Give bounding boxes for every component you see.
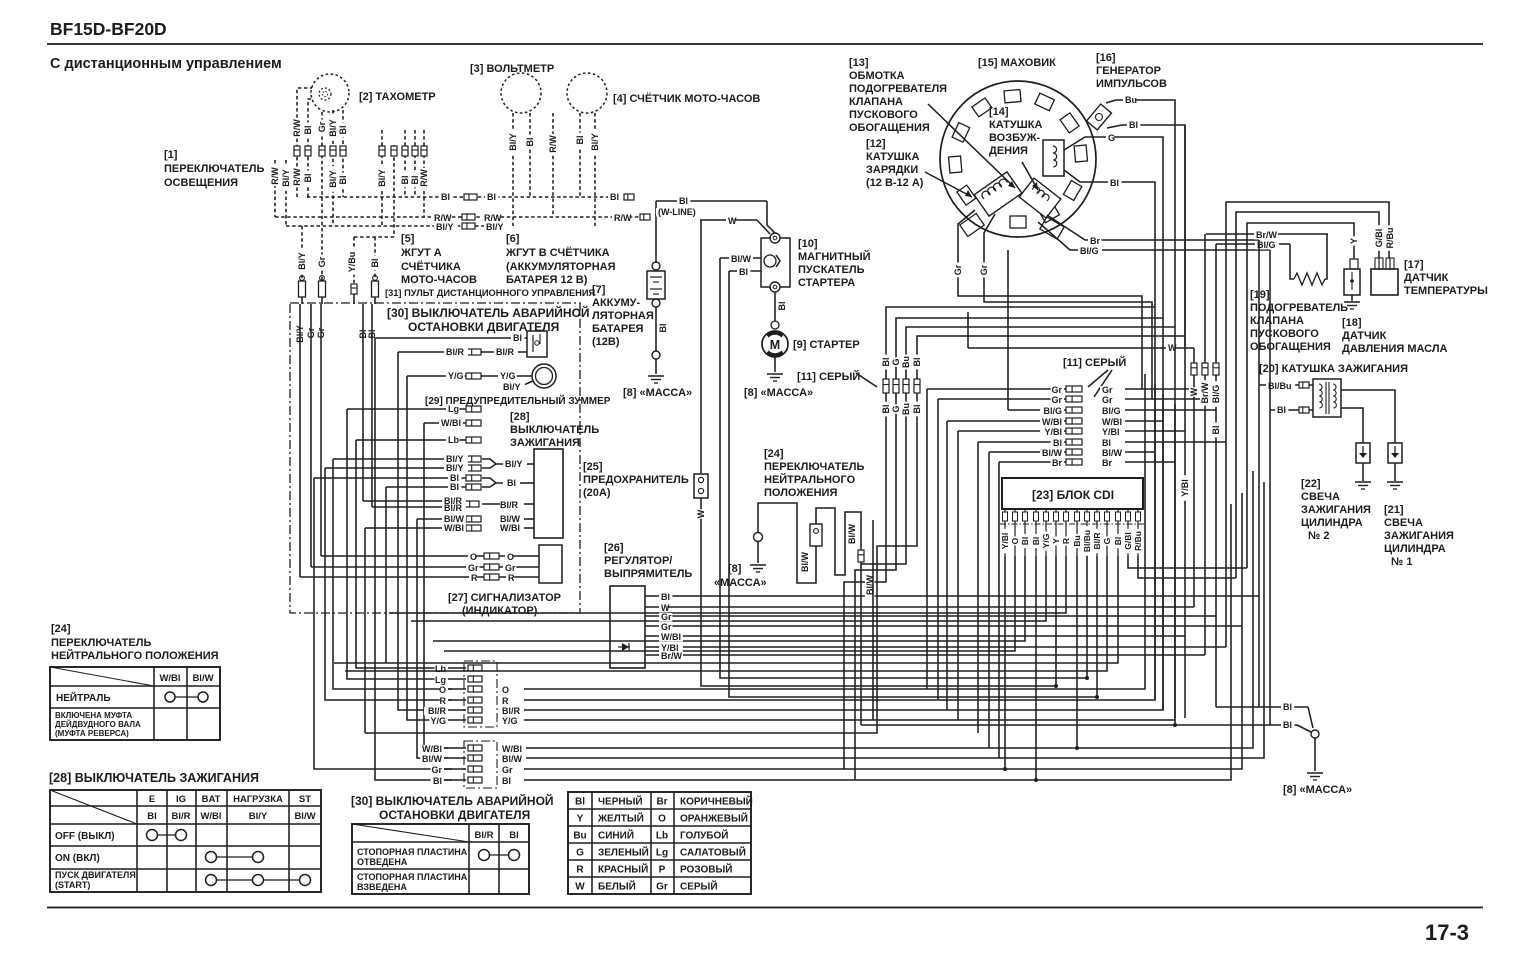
svg-text:W/Bl: W/Bl: [1042, 417, 1062, 427]
svg-text:Bl/W: Bl/W: [1042, 448, 1063, 458]
svg-text:[8] «МАССА»: [8] «МАССА»: [623, 387, 692, 399]
svg-text:(20А): (20А): [583, 487, 611, 499]
svg-text:Bl: Bl: [658, 324, 668, 333]
svg-text:Bl: Bl: [610, 192, 619, 202]
svg-text:G: G: [576, 848, 584, 859]
svg-text:СИНИЙ: СИНИЙ: [598, 829, 634, 842]
svg-text:G: G: [1102, 537, 1112, 544]
svg-text:R/W: R/W: [292, 168, 302, 186]
svg-text:Gr: Gr: [317, 121, 327, 132]
svg-text:ВКЛЮЧЕНА МУФТА: ВКЛЮЧЕНА МУФТА: [55, 711, 132, 720]
svg-text:(W-LINE): (W-LINE): [658, 207, 696, 217]
svg-text:ДАВЛЕНИЯ МАСЛА: ДАВЛЕНИЯ МАСЛА: [1342, 343, 1448, 355]
svg-text:Bl/Y: Bl/Y: [377, 169, 387, 187]
svg-text:[4] СЧЁТЧИК МОТО-ЧАСОВ: [4] СЧЁТЧИК МОТО-ЧАСОВ: [613, 92, 760, 105]
svg-text:Bl: Bl: [338, 126, 348, 135]
svg-text:OFF (ВЫКЛ): OFF (ВЫКЛ): [55, 831, 115, 842]
svg-text:[16]: [16]: [1096, 52, 1116, 64]
svg-text:ТЕМПЕРАТУРЫ: ТЕМПЕРАТУРЫ: [1404, 285, 1488, 297]
svg-text:Bl/R: Bl/R: [428, 706, 447, 716]
svg-text:Y/G: Y/G: [448, 371, 464, 381]
svg-text:Bl: Bl: [912, 405, 922, 414]
svg-text:(12 В-12 А): (12 В-12 А): [866, 177, 924, 189]
svg-text:Bl/G: Bl/G: [1102, 406, 1121, 416]
svg-text:Bl: Bl: [575, 136, 585, 145]
svg-text:Bl: Bl: [1283, 702, 1292, 712]
svg-text:W: W: [1168, 343, 1177, 353]
svg-text:Bl: Bl: [1020, 537, 1030, 546]
svg-text:Bl: Bl: [502, 776, 511, 786]
svg-text:[14]: [14]: [989, 106, 1009, 118]
svg-text:Bl: Bl: [433, 776, 442, 786]
svg-text:ВЗВЕДЕНА: ВЗВЕДЕНА: [357, 882, 407, 892]
svg-text:КОРИЧНЕВЫЙ: КОРИЧНЕВЫЙ: [680, 795, 753, 808]
svg-text:(МУФТА РЕВЕРСА): (МУФТА РЕВЕРСА): [55, 729, 129, 738]
svg-text:[25]: [25]: [583, 461, 603, 473]
svg-text:Bl: Bl: [1283, 720, 1292, 730]
svg-text:Bl: Bl: [1102, 438, 1111, 448]
svg-text:ЦИЛИНДРА: ЦИЛИНДРА: [1384, 543, 1446, 555]
svg-text:17-3: 17-3: [1425, 920, 1469, 945]
svg-text:БАТАРЕЯ 12 В): БАТАРЕЯ 12 В): [506, 274, 588, 286]
svg-text:[8] «МАССА»: [8] «МАССА»: [1283, 784, 1352, 796]
svg-text:ГЕНЕРАТОР: ГЕНЕРАТОР: [1096, 65, 1161, 77]
svg-text:С дистанционным управлением: С дистанционным управлением: [50, 56, 282, 72]
svg-text:W/Bl: W/Bl: [502, 744, 522, 754]
svg-text:Bl: Bl: [513, 333, 522, 343]
svg-text:Bl/Y: Bl/Y: [436, 222, 454, 232]
svg-text:(ИНДИКАТОР): (ИНДИКАТОР): [462, 605, 538, 617]
svg-text:G: G: [1108, 133, 1115, 143]
svg-text:СТОПОРНАЯ ПЛАСТИНА: СТОПОРНАЯ ПЛАСТИНА: [357, 847, 468, 857]
svg-text:R: R: [440, 696, 447, 706]
svg-text:P: P: [659, 865, 666, 876]
svg-text:Bl: Bl: [881, 358, 891, 367]
svg-text:ПУСКАТЕЛЬ: ПУСКАТЕЛЬ: [798, 264, 865, 276]
svg-text:Gr: Gr: [1051, 395, 1062, 405]
svg-text:Bl/Y: Bl/Y: [446, 463, 464, 473]
svg-text:ЗАРЯДКИ: ЗАРЯДКИ: [866, 164, 918, 176]
svg-text:Y/Bl: Y/Bl: [1102, 427, 1120, 437]
svg-text:[8]: [8]: [728, 563, 742, 575]
svg-text:Y/G: Y/G: [430, 716, 446, 726]
svg-text:ЛЯТОРНАЯ: ЛЯТОРНАЯ: [592, 310, 654, 322]
svg-text:Lb: Lb: [448, 435, 459, 445]
svg-text:[13]: [13]: [849, 57, 869, 69]
svg-text:СТАРТЕРА: СТАРТЕРА: [798, 277, 855, 289]
svg-text:G/Bl: G/Bl: [1374, 229, 1384, 248]
svg-text:№ 1: № 1: [1391, 556, 1412, 568]
svg-text:O: O: [439, 685, 446, 695]
svg-text:O: O: [658, 814, 666, 825]
svg-text:КЛАПАНА: КЛАПАНА: [1250, 315, 1304, 327]
svg-text:Bl: Bl: [450, 482, 459, 492]
svg-text:ДЕНИЯ: ДЕНИЯ: [989, 145, 1028, 157]
svg-text:ЗАЖИГАНИЯ: ЗАЖИГАНИЯ: [1301, 504, 1371, 516]
svg-text:Bl/Bu: Bl/Bu: [1082, 530, 1092, 552]
svg-text:ЖГУТ А: ЖГУТ А: [400, 247, 442, 259]
svg-text:Bl/W: Bl/W: [731, 254, 752, 264]
svg-text:Y/Bl: Y/Bl: [1044, 427, 1062, 437]
svg-text:БЕЛЫЙ: БЕЛЫЙ: [598, 880, 636, 893]
svg-text:Gr: Gr: [661, 622, 672, 632]
svg-text:Bl/W: Bl/W: [1102, 448, 1123, 458]
svg-text:Lg: Lg: [448, 404, 459, 414]
svg-text:[28] ВЫКЛЮЧАТЕЛЬ ЗАЖИГАНИЯ: [28] ВЫКЛЮЧАТЕЛЬ ЗАЖИГАНИЯ: [49, 771, 259, 785]
svg-text:[11] СЕРЫЙ: [11] СЕРЫЙ: [1063, 356, 1126, 369]
svg-text:(START): (START): [55, 880, 90, 890]
svg-text:[31] ПУЛЬТ ДИСТАНЦИОННОГО УПРА: [31] ПУЛЬТ ДИСТАНЦИОННОГО УПРАВЛЕНИЯ: [385, 288, 596, 298]
svg-text:НЕЙТРАЛЬНОГО: НЕЙТРАЛЬНОГО: [764, 473, 856, 486]
svg-text:Bl/Y: Bl/Y: [486, 222, 504, 232]
svg-text:САЛАТОВЫЙ: САЛАТОВЫЙ: [680, 846, 746, 859]
svg-text:Bl: Bl: [370, 259, 380, 268]
svg-text:Bl/W: Bl/W: [294, 811, 315, 822]
svg-text:[27] СИГНАЛИЗАТОР: [27] СИГНАЛИЗАТОР: [448, 592, 561, 604]
svg-text:НЕЙТРАЛЬ: НЕЙТРАЛЬ: [56, 691, 111, 704]
svg-text:ОСТАНОВКИ ДВИГАТЕЛЯ: ОСТАНОВКИ ДВИГАТЕЛЯ: [379, 808, 530, 822]
svg-text:Gr: Gr: [505, 563, 516, 573]
svg-text:[28]: [28]: [510, 411, 530, 423]
svg-text:Gr: Gr: [468, 563, 479, 573]
svg-text:R/W: R/W: [614, 213, 632, 223]
svg-text:W: W: [575, 882, 585, 893]
svg-text:Y/G: Y/G: [1041, 533, 1051, 548]
svg-text:Bl: Bl: [487, 192, 496, 202]
svg-text:ОБМОТКА: ОБМОТКА: [849, 70, 905, 82]
svg-text:W/Bl: W/Bl: [661, 632, 681, 642]
svg-text:ПЕРЕКЛЮЧАТЕЛЬ: ПЕРЕКЛЮЧАТЕЛЬ: [764, 461, 864, 473]
svg-text:Gr: Gr: [317, 256, 327, 267]
svg-text:ПОДОГРЕВАТЕЛЯ: ПОДОГРЕВАТЕЛЯ: [849, 83, 947, 95]
svg-text:РЕГУЛЯТОР/: РЕГУЛЯТОР/: [604, 555, 672, 567]
svg-text:Bl/R: Bl/R: [444, 503, 463, 513]
svg-text:BF15D-BF20D: BF15D-BF20D: [50, 19, 167, 39]
svg-text:Bl/Y: Bl/Y: [297, 252, 307, 270]
svg-text:Gr: Gr: [1102, 385, 1113, 395]
svg-text:W/Bl: W/Bl: [200, 811, 221, 822]
svg-text:W: W: [1189, 387, 1199, 396]
svg-text:G: G: [891, 358, 901, 365]
svg-text:Lg: Lg: [656, 848, 668, 859]
svg-text:Bl: Bl: [338, 176, 348, 185]
svg-text:БАТАРЕЯ: БАТАРЕЯ: [592, 323, 644, 335]
svg-text:ПУСК ДВИГАТЕЛЯ: ПУСК ДВИГАТЕЛЯ: [55, 870, 136, 880]
svg-text:O: O: [502, 685, 509, 695]
svg-text:Lb: Lb: [656, 831, 668, 842]
svg-text:W/Bl: W/Bl: [500, 523, 520, 533]
svg-text:Bl: Bl: [147, 811, 157, 822]
svg-text:ДАТЧИК: ДАТЧИК: [1404, 272, 1449, 284]
svg-text:Y: Y: [577, 814, 584, 825]
svg-text:[7]: [7]: [592, 284, 606, 296]
svg-text:R/Bu: R/Bu: [1133, 531, 1143, 551]
svg-text:СТОПОРНАЯ ПЛАСТИНА: СТОПОРНАЯ ПЛАСТИНА: [357, 872, 468, 882]
svg-text:ПРЕДОХРАНИТЕЛЬ: ПРЕДОХРАНИТЕЛЬ: [583, 474, 689, 486]
svg-text:ОСТАНОВКИ ДВИГАТЕЛЯ: ОСТАНОВКИ ДВИГАТЕЛЯ: [408, 320, 559, 334]
svg-text:Bl/Y: Bl/Y: [505, 459, 523, 469]
svg-text:[11] СЕРЫЙ: [11] СЕРЫЙ: [797, 370, 860, 383]
svg-text:BAT: BAT: [202, 794, 221, 805]
svg-text:МАГНИТНЫЙ: МАГНИТНЫЙ: [798, 250, 871, 263]
svg-text:Gr: Gr: [979, 264, 989, 275]
svg-text:Bu: Bu: [901, 356, 911, 368]
svg-text:Y/Bl: Y/Bl: [1000, 533, 1010, 550]
svg-text:Bl: Bl: [881, 405, 891, 414]
svg-text:[8] «МАССА»: [8] «МАССА»: [744, 387, 813, 399]
svg-text:[21]: [21]: [1384, 504, 1404, 516]
svg-text:Bl/R: Bl/R: [500, 500, 519, 510]
svg-text:R: R: [1061, 538, 1071, 544]
svg-text:[2] ТАХОМЕТР: [2] ТАХОМЕТР: [359, 91, 436, 103]
svg-text:[24]: [24]: [51, 623, 71, 635]
svg-text:R: R: [471, 573, 478, 583]
svg-text:ON (ВКЛ): ON (ВКЛ): [55, 853, 100, 864]
svg-text:ЗАЖИГАНИЯ: ЗАЖИГАНИЯ: [510, 437, 580, 449]
svg-text:Bl/G: Bl/G: [1257, 240, 1276, 250]
svg-text:Bl/W: Bl/W: [800, 551, 810, 572]
svg-text:Bl/Y: Bl/Y: [590, 133, 600, 151]
svg-text:МОТО-ЧАСОВ: МОТО-ЧАСОВ: [401, 274, 477, 286]
svg-text:АККУМУ-: АККУМУ-: [592, 297, 640, 309]
svg-text:Bl: Bl: [509, 830, 519, 841]
svg-text:Bl: Bl: [739, 267, 748, 277]
svg-text:Gr: Gr: [1051, 385, 1062, 395]
svg-text:Br/W: Br/W: [1200, 382, 1210, 404]
svg-text:КЛАПАНА: КЛАПАНА: [849, 96, 903, 108]
svg-text:IG: IG: [176, 794, 186, 805]
svg-text:Bl/G: Bl/G: [1080, 246, 1099, 256]
svg-text:Bl/R: Bl/R: [446, 347, 465, 357]
svg-text:ВЫКЛЮЧАТЕЛЬ: ВЫКЛЮЧАТЕЛЬ: [510, 424, 599, 436]
svg-text:Bl: Bl: [575, 797, 585, 808]
svg-text:ГОЛУБОЙ: ГОЛУБОЙ: [680, 829, 728, 842]
svg-text:ОТВЕДЕНА: ОТВЕДЕНА: [357, 857, 408, 867]
svg-text:Bl/G: Bl/G: [1043, 406, 1062, 416]
svg-text:ЖГУТ В СЧЁТЧИКА: ЖГУТ В СЧЁТЧИКА: [505, 246, 610, 259]
svg-text:ОБОГАЩЕНИЯ: ОБОГАЩЕНИЯ: [849, 122, 930, 134]
svg-text:W/Bl: W/Bl: [422, 744, 442, 754]
svg-text:ПУСКОВОГО: ПУСКОВОГО: [849, 109, 918, 121]
svg-text:Bl: Bl: [661, 592, 670, 602]
svg-text:Bl: Bl: [1053, 438, 1062, 448]
svg-text:Y/G: Y/G: [500, 371, 516, 381]
svg-text:НЕЙТРАЛЬНОГО ПОЛОЖЕНИЯ: НЕЙТРАЛЬНОГО ПОЛОЖЕНИЯ: [51, 649, 219, 662]
svg-text:Bl: Bl: [303, 126, 313, 135]
svg-text:Y/Bu: Y/Bu: [347, 252, 357, 273]
svg-text:Bl/R: Bl/R: [496, 347, 515, 357]
svg-text:Bu: Bu: [1072, 535, 1082, 546]
svg-text:R/W: R/W: [548, 135, 558, 153]
svg-text:(12В): (12В): [592, 336, 620, 348]
svg-text:[15] МАХОВИК: [15] МАХОВИК: [978, 57, 1056, 69]
svg-text:Bl/R: Bl/R: [1092, 533, 1102, 550]
svg-text:R: R: [502, 696, 509, 706]
svg-text:СВЕЧА: СВЕЧА: [1384, 517, 1423, 529]
svg-text:G: G: [891, 405, 901, 412]
svg-text:Gr: Gr: [502, 765, 513, 775]
svg-text:Bl/Y: Bl/Y: [249, 811, 268, 822]
svg-text:ПОЛОЖЕНИЯ: ПОЛОЖЕНИЯ: [764, 487, 837, 499]
svg-text:Y: Y: [1349, 238, 1359, 244]
svg-text:G/Bl: G/Bl: [1123, 532, 1133, 549]
svg-text:[6]: [6]: [506, 233, 520, 245]
svg-text:[22]: [22]: [1301, 478, 1321, 490]
svg-text:Y/Bl: Y/Bl: [1180, 479, 1190, 497]
svg-text:Bl: Bl: [441, 192, 450, 202]
svg-text:[12]: [12]: [866, 138, 886, 150]
svg-text:[5]: [5]: [401, 233, 415, 245]
svg-text:ЗАЖИГАНИЯ: ЗАЖИГАНИЯ: [1384, 530, 1454, 542]
svg-text:Bl: Bl: [1113, 537, 1123, 546]
svg-text:КРАСНЫЙ: КРАСНЫЙ: [598, 863, 648, 876]
svg-text:Bl/R: Bl/R: [475, 830, 494, 841]
svg-text:M: M: [770, 338, 780, 352]
svg-text:Bl/W: Bl/W: [847, 523, 857, 544]
svg-text:Bu: Bu: [573, 831, 586, 842]
svg-text:Lg: Lg: [435, 675, 446, 685]
svg-text:Y: Y: [1051, 538, 1061, 544]
svg-text:[20] КАТУШКА ЗАЖИГАНИЯ: [20] КАТУШКА ЗАЖИГАНИЯ: [1259, 363, 1408, 375]
svg-text:Bl/Y: Bl/Y: [503, 382, 521, 392]
svg-text:ПЕРЕКЛЮЧАТЕЛЬ: ПЕРЕКЛЮЧАТЕЛЬ: [51, 637, 151, 649]
svg-text:Bl/W: Bl/W: [422, 754, 443, 764]
svg-text:Gr: Gr: [1102, 395, 1113, 405]
svg-text:R/W: R/W: [292, 119, 302, 137]
svg-text:[24]: [24]: [764, 448, 784, 460]
svg-text:W/Bl: W/Bl: [1102, 417, 1122, 427]
svg-text:W: W: [696, 509, 706, 518]
svg-text:КАТУШКА: КАТУШКА: [866, 151, 919, 163]
svg-text:[18]: [18]: [1342, 317, 1362, 329]
svg-text:«МАССА»: «МАССА»: [714, 577, 767, 589]
svg-text:O: O: [470, 552, 477, 562]
svg-text:W/Bl: W/Bl: [441, 418, 461, 428]
svg-text:[3] ВОЛЬТМЕТР: [3] ВОЛЬТМЕТР: [470, 63, 554, 75]
svg-text:Gr: Gr: [953, 264, 963, 275]
svg-text:Bl: Bl: [303, 174, 313, 183]
svg-text:Bl: Bl: [1031, 537, 1041, 546]
svg-text:Bl: Bl: [679, 196, 688, 206]
svg-text:Gr: Gr: [661, 612, 672, 622]
svg-text:W: W: [728, 216, 737, 226]
svg-text:Bu: Bu: [1125, 95, 1137, 105]
svg-text:СЧЁТЧИКА: СЧЁТЧИКА: [401, 260, 461, 273]
svg-text:№ 2: № 2: [1308, 530, 1329, 542]
svg-text:НАГРУЗКА: НАГРУЗКА: [233, 794, 283, 805]
svg-text:Bl/Y: Bl/Y: [328, 170, 338, 188]
svg-text:[26]: [26]: [604, 542, 624, 554]
svg-text:Bl: Bl: [777, 302, 787, 311]
svg-text:ВОЗБУЖ-: ВОЗБУЖ-: [989, 132, 1041, 144]
svg-text:Bu: Bu: [901, 403, 911, 415]
svg-text:O: O: [507, 552, 514, 562]
svg-text:Bl/R: Bl/R: [502, 706, 521, 716]
svg-text:(АККУМУЛЯТОРНАЯ: (АККУМУЛЯТОРНАЯ: [506, 261, 616, 273]
svg-text:ST: ST: [299, 794, 311, 805]
svg-text:Bl/G: Bl/G: [1211, 385, 1221, 404]
svg-text:Gr: Gr: [431, 765, 442, 775]
svg-text:[17]: [17]: [1404, 259, 1424, 271]
svg-text:R/W: R/W: [419, 169, 429, 187]
svg-text:ДАТЧИК: ДАТЧИК: [1342, 330, 1387, 342]
svg-text:СВЕЧА: СВЕЧА: [1301, 491, 1340, 503]
svg-text:ЖЕЛТЫЙ: ЖЕЛТЫЙ: [597, 812, 644, 825]
svg-text:Bl: Bl: [1129, 120, 1138, 130]
svg-text:ПЕРЕКЛЮЧАТЕЛЬ: ПЕРЕКЛЮЧАТЕЛЬ: [164, 163, 264, 175]
svg-text:ИМПУЛЬСОВ: ИМПУЛЬСОВ: [1096, 78, 1167, 90]
svg-text:R: R: [576, 865, 584, 876]
svg-text:Bl: Bl: [1277, 405, 1286, 415]
svg-text:Bl/Y: Bl/Y: [281, 169, 291, 187]
svg-text:СЕРЫЙ: СЕРЫЙ: [680, 880, 718, 893]
svg-text:РОЗОВЫЙ: РОЗОВЫЙ: [680, 863, 732, 876]
svg-text:Bl/W: Bl/W: [502, 754, 523, 764]
svg-text:Br: Br: [1052, 458, 1062, 468]
svg-text:Bl: Bl: [525, 138, 535, 147]
svg-text:R: R: [508, 573, 515, 583]
svg-text:Br/W: Br/W: [661, 651, 683, 661]
svg-text:Bl/Y: Bl/Y: [328, 119, 338, 137]
svg-text:[23] БЛОК CDI: [23] БЛОК CDI: [1032, 488, 1114, 502]
svg-text:Bl: Bl: [507, 478, 516, 488]
svg-text:ОРАНЖЕВЫЙ: ОРАНЖЕВЫЙ: [680, 812, 748, 825]
svg-text:Y/G: Y/G: [502, 716, 518, 726]
svg-text:ОСВЕЩЕНИЯ: ОСВЕЩЕНИЯ: [164, 177, 238, 189]
svg-text:ОБОГАЩЕНИЯ: ОБОГАЩЕНИЯ: [1250, 341, 1331, 353]
svg-text:Br: Br: [656, 797, 667, 808]
svg-text:E: E: [149, 794, 155, 805]
svg-text:Bl: Bl: [912, 358, 922, 367]
svg-text:Br: Br: [1102, 458, 1112, 468]
svg-text:ЗЕЛЕНЫЙ: ЗЕЛЕНЫЙ: [598, 846, 649, 859]
svg-text:ДЕЙДВУДНОГО ВАЛА: ДЕЙДВУДНОГО ВАЛА: [55, 720, 141, 729]
svg-text:R/W: R/W: [270, 167, 280, 185]
svg-text:Br/W: Br/W: [1256, 230, 1278, 240]
svg-text:[10]: [10]: [798, 238, 818, 250]
svg-text:R/Bu: R/Bu: [1385, 228, 1395, 249]
svg-text:[1]: [1]: [164, 149, 178, 161]
svg-text:Bl/W: Bl/W: [192, 673, 213, 684]
svg-text:Bl/Bu: Bl/Bu: [1268, 381, 1292, 391]
svg-text:W/Bl: W/Bl: [444, 523, 464, 533]
svg-text:Gr: Gr: [656, 882, 668, 893]
svg-text:W/Bl: W/Bl: [159, 673, 180, 684]
svg-text:Bl: Bl: [1211, 426, 1221, 435]
svg-text:ПОДОГРЕВАТЕЛЬ: ПОДОГРЕВАТЕЛЬ: [1250, 302, 1348, 314]
svg-text:ЦИЛИНДРА: ЦИЛИНДРА: [1301, 517, 1363, 529]
svg-text:Bl: Bl: [1110, 178, 1119, 188]
svg-text:Bl: Bl: [400, 176, 410, 185]
svg-text:[9] СТАРТЕР: [9] СТАРТЕР: [793, 339, 860, 351]
svg-text:[30] ВЫКЛЮЧАТЕЛЬ АВАРИЙНОЙ: [30] ВЫКЛЮЧАТЕЛЬ АВАРИЙНОЙ: [387, 305, 590, 320]
svg-text:Bl/Y: Bl/Y: [508, 133, 518, 151]
svg-text:Br: Br: [1090, 236, 1100, 246]
svg-text:ПУСКОВОГО: ПУСКОВОГО: [1250, 328, 1319, 340]
svg-text:Lb: Lb: [435, 664, 446, 674]
svg-text:ЧЕРНЫЙ: ЧЕРНЫЙ: [598, 795, 643, 808]
svg-text:Bl/R: Bl/R: [172, 811, 191, 822]
svg-text:O: O: [1010, 537, 1020, 544]
svg-text:[19]: [19]: [1250, 289, 1270, 301]
svg-text:КАТУШКА: КАТУШКА: [989, 119, 1042, 131]
svg-text:[30] ВЫКЛЮЧАТЕЛЬ АВАРИЙНОЙ: [30] ВЫКЛЮЧАТЕЛЬ АВАРИЙНОЙ: [351, 793, 554, 808]
svg-text:ВЫПРЯМИТЕЛЬ: ВЫПРЯМИТЕЛЬ: [604, 568, 692, 580]
